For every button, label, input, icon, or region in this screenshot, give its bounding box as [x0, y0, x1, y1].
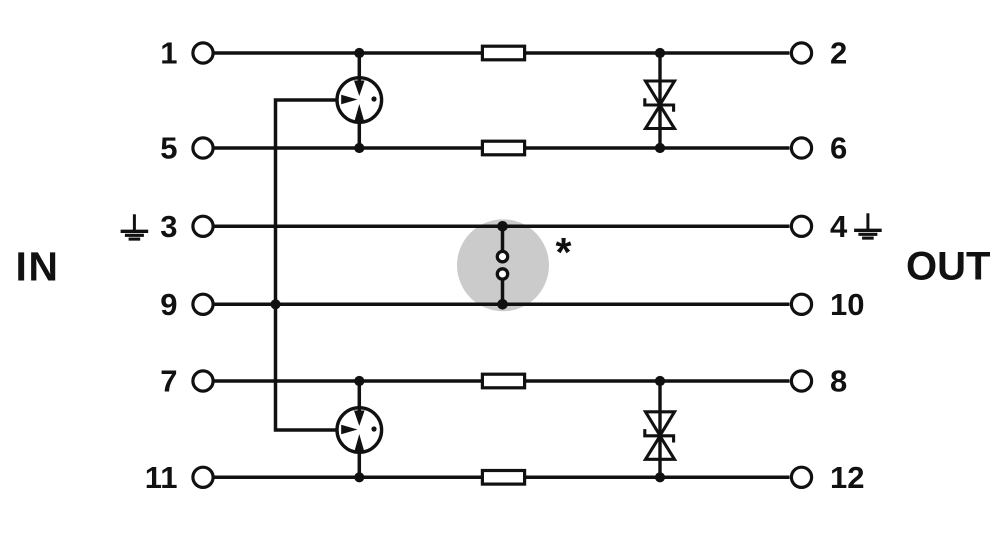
wire bus from GDT electrodes to node on line 9 — [276, 100, 342, 430]
gas discharge tube F2 — [337, 376, 382, 483]
svg-text:9: 9 — [160, 287, 177, 322]
svg-text:2: 2 — [830, 36, 847, 71]
resistor R4 line 11-12 — [482, 471, 524, 485]
svg-text:IN: IN — [16, 244, 60, 290]
wire line 9-10 — [215, 303, 790, 307]
svg-text:4: 4 — [830, 209, 848, 244]
terminal 10 — [791, 294, 811, 314]
terminal 11 — [193, 467, 213, 487]
wire line 3-4 — [215, 225, 790, 229]
node junction bus/line 9 — [270, 299, 280, 309]
gas discharge tube F1 — [337, 48, 382, 153]
isolating spark gap (test disconnect) — [497, 221, 508, 310]
svg-text:*: * — [556, 229, 572, 275]
svg-text:OUT: OUT — [906, 245, 990, 289]
svg-text:6: 6 — [830, 131, 847, 166]
terminal 9 — [193, 294, 213, 314]
svg-text:8: 8 — [830, 364, 847, 399]
terminal 4 — [791, 216, 811, 236]
terminal 12 — [791, 467, 811, 487]
wire line 11-12 — [215, 476, 790, 480]
svg-text:1: 1 — [160, 36, 177, 71]
svg-text:7: 7 — [160, 364, 177, 399]
resistor R3 line 7-8 — [482, 374, 524, 388]
suppressor diode D2 — [645, 376, 675, 483]
resistor R1 line 1-2 — [482, 46, 524, 60]
resistor R2 line 5-6 — [482, 141, 524, 155]
terminal 5 — [193, 138, 213, 158]
wire line 7-8 — [215, 379, 790, 383]
wire line 5-6 — [215, 146, 790, 150]
svg-text:10: 10 — [830, 287, 864, 322]
svg-text:5: 5 — [160, 131, 177, 166]
terminal 1 — [193, 43, 213, 63]
wire line 1-2 — [215, 51, 790, 55]
terminal 7 — [193, 371, 213, 391]
terminal 8 — [791, 371, 811, 391]
svg-text:3: 3 — [160, 209, 177, 244]
svg-text:11: 11 — [145, 460, 178, 495]
terminal 3 — [193, 216, 213, 236]
ground left — [121, 214, 149, 239]
svg-text:12: 12 — [830, 460, 864, 495]
suppressor diode D1 — [645, 48, 675, 153]
shaded test-disconnect zone circle — [457, 219, 549, 311]
ground right — [854, 213, 882, 238]
terminal 6 — [791, 138, 811, 158]
terminal 2 — [791, 43, 811, 63]
